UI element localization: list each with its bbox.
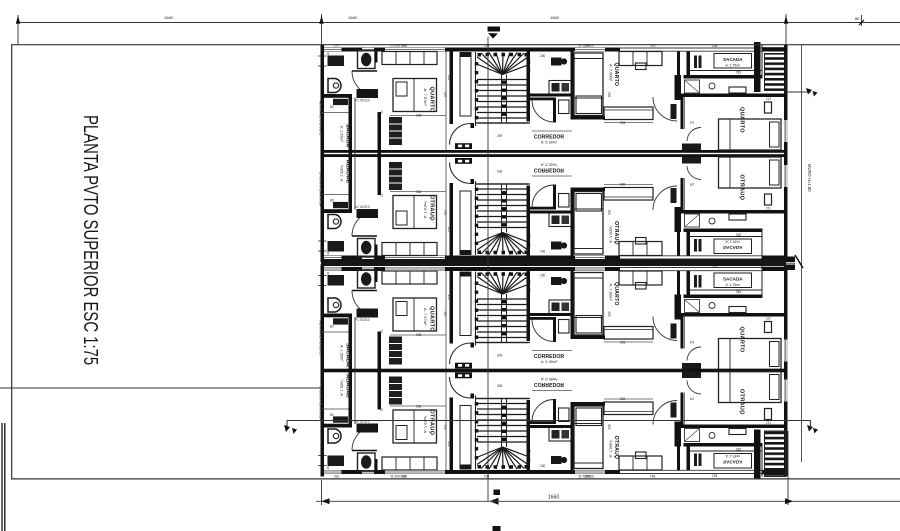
svg-text:1660: 1660 — [550, 15, 560, 20]
svg-text:1660: 1660 — [164, 15, 174, 20]
svg-text:PLANTA PVTO SUPERIOR ESC 1:75: PLANTA PVTO SUPERIOR ESC 1:75 — [79, 115, 102, 365]
svg-text:1660: 1660 — [548, 495, 559, 501]
svg-text:MURO H=1.80: MURO H=1.80 — [807, 164, 812, 192]
svg-text:1660: 1660 — [348, 15, 358, 20]
svg-text:86: 86 — [855, 16, 860, 21]
